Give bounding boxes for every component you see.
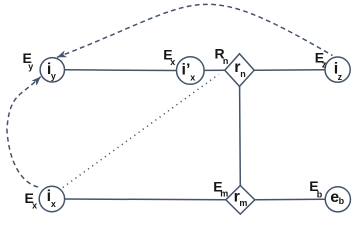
wire i'_x to r_n — [204, 69, 225, 71]
wire r_n to r_m — [239, 86, 242, 185]
node i'_x (circle) — [177, 57, 205, 85]
label E_z — [315, 50, 327, 70]
svg-text:n: n — [223, 56, 229, 66]
label i_z — [334, 61, 343, 82]
svg-text:b: b — [339, 196, 345, 206]
label i_x — [47, 188, 56, 209]
label r_m — [234, 188, 248, 208]
svg-text:y: y — [28, 61, 33, 71]
svg-text:x: x — [32, 200, 37, 210]
wire r_n to i_z — [254, 69, 325, 72]
wire r_m to e_b — [255, 198, 325, 201]
label E_y — [23, 50, 34, 71]
svg-text:x: x — [170, 57, 175, 67]
label E_b — [309, 178, 323, 199]
wire i_y to i'_x — [64, 69, 176, 72]
node e_b (circle) — [325, 187, 350, 212]
svg-text:y: y — [51, 71, 56, 81]
label r_n — [234, 59, 245, 79]
label E_m — [213, 178, 228, 198]
wire i_x to r_m — [65, 198, 226, 201]
svg-text:z: z — [338, 72, 343, 82]
label i_y — [47, 61, 56, 81]
arrowhead at i_y bottom-left — [31, 74, 43, 86]
label e_b — [330, 189, 344, 206]
label E_x (bottom) — [25, 190, 38, 211]
node i_z (circle) — [325, 57, 350, 82]
dotted line i_x to r_n — [63, 74, 219, 187]
label E_x (top) — [163, 46, 175, 67]
relationship r_n (diamond) — [225, 54, 254, 87]
svg-text:b: b — [317, 189, 323, 199]
arrowhead at i_y top-right — [56, 51, 67, 61]
label R_n — [215, 46, 229, 66]
svg-text:n: n — [240, 69, 246, 79]
node i_x (circle) — [39, 186, 64, 211]
node i_y (circle) — [40, 58, 64, 82]
relationship r_m (diamond) — [226, 186, 255, 215]
dashed arc i_z to i_y (top) — [57, 4, 333, 57]
svg-text:x: x — [190, 72, 195, 82]
svg-text:m: m — [220, 188, 228, 198]
svg-text:z: z — [322, 60, 327, 70]
svg-text:m: m — [239, 198, 247, 208]
label i'_x — [182, 61, 196, 82]
svg-text:i’: i’ — [182, 61, 191, 78]
svg-text:x: x — [51, 199, 56, 209]
dashed curve i_x to i_y (left) — [7, 77, 41, 187]
